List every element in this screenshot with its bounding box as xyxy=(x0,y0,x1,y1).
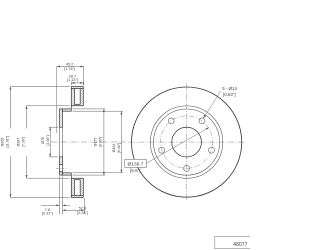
center bore xyxy=(172,127,202,157)
dim D3 bore Ø78 xyxy=(49,127,59,157)
hat wall top xyxy=(63,109,72,111)
flange top half xyxy=(60,109,63,127)
leader 5 bolt holes xyxy=(203,91,220,118)
svg-text:[7.36"]: [7.36"] xyxy=(21,137,25,147)
dim D6 height 45.2 xyxy=(57,67,84,134)
vertical centerline xyxy=(186,84,188,202)
outer circle xyxy=(132,87,242,197)
horizontal centerline xyxy=(129,141,246,143)
svg-text:57.8: 57.8 xyxy=(79,207,86,211)
svg-text:[0.63"]: [0.63"] xyxy=(223,92,236,97)
dim D4 Ø175 xyxy=(73,109,106,175)
section axis centerline xyxy=(51,141,126,143)
svg-text:[6.46"]: [6.46"] xyxy=(117,143,121,153)
bolt hole section xyxy=(60,165,63,172)
disc hatch bottom xyxy=(71,178,83,197)
dim D8 flange 7.8 xyxy=(41,176,70,214)
svg-text:[2.28"]: [2.28"] xyxy=(77,211,88,215)
svg-text:[6.89"]: [6.89"] xyxy=(99,137,103,147)
bolt circle xyxy=(160,116,212,168)
friction ID circle xyxy=(150,106,222,178)
disc outline bottom xyxy=(71,175,83,197)
svg-text:[3.06"]: [3.06"] xyxy=(46,135,50,145)
flange bore edges xyxy=(59,127,61,157)
svg-text:45.2: 45.2 xyxy=(66,63,73,67)
bolt hole upper-right xyxy=(199,118,205,124)
svg-text:Ø78: Ø78 xyxy=(41,137,45,144)
bolt hole left xyxy=(159,147,165,153)
dim D9 57.8 xyxy=(63,198,85,214)
flange bottom lower part xyxy=(60,172,63,175)
dim D5 Ø164 xyxy=(73,111,123,173)
svg-text:[0.31"]: [0.31"] xyxy=(42,211,53,215)
svg-text:Ø187: Ø187 xyxy=(16,138,20,147)
bolt hole bottom xyxy=(184,165,190,171)
bolt circle box label xyxy=(125,159,146,167)
bolt hole centerline xyxy=(56,167,65,169)
svg-text:[11.61"]: [11.61"] xyxy=(5,136,9,148)
svg-text:Ø139.7: Ø139.7 xyxy=(127,162,143,168)
svg-text:Ø295: Ø295 xyxy=(0,138,4,147)
svg-text:[1.13"]: [1.13"] xyxy=(67,78,78,82)
svg-text:Ø175: Ø175 xyxy=(94,138,98,147)
dim D2 Ø187 xyxy=(27,106,70,178)
svg-text:48077: 48077 xyxy=(233,242,248,248)
bolt hole right xyxy=(209,147,215,153)
flange bottom upper part xyxy=(60,157,63,165)
hat OD circle xyxy=(154,109,220,175)
svg-text:Ø164: Ø164 xyxy=(112,144,116,153)
svg-text:[1.78"]: [1.78"] xyxy=(64,67,75,71)
svg-text:5 - Ø14: 5 - Ø14 xyxy=(222,86,237,91)
dim D7 thickness 28.7 xyxy=(71,82,83,86)
bolt hole upper-left xyxy=(168,118,174,124)
svg-text:[5.5"]: [5.5"] xyxy=(130,168,141,173)
leader bolt circle dia xyxy=(146,128,209,164)
hat wall bottom xyxy=(63,173,72,175)
disc hatch top xyxy=(71,87,83,106)
dim D1 Ø295 xyxy=(11,87,70,198)
disc outline top xyxy=(71,87,83,109)
part number box xyxy=(215,236,253,248)
